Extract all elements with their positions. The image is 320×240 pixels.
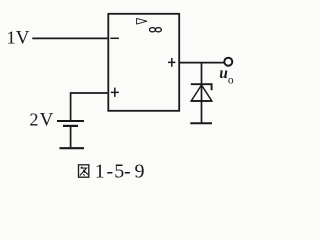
- svg-text:1: 1: [95, 161, 105, 183]
- svg-text:-: -: [124, 161, 131, 183]
- svg-text:V: V: [16, 28, 30, 49]
- svg-text:9: 9: [135, 161, 145, 183]
- svg-text:V: V: [40, 110, 54, 131]
- svg-text:-: -: [107, 161, 114, 183]
- svg-text:o: o: [228, 75, 234, 87]
- svg-text:2: 2: [29, 110, 38, 130]
- svg-text:5: 5: [114, 161, 124, 183]
- svg-text:1: 1: [7, 28, 16, 48]
